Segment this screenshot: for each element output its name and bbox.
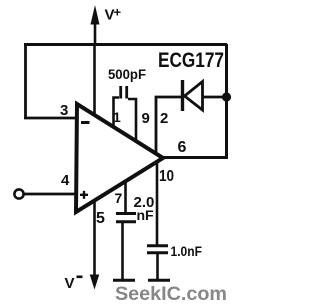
svg-text:SeekIC.com: SeekIC.com [115,284,227,305]
svg-text:1.0nF: 1.0nF [171,243,203,259]
svg-text:6: 6 [178,139,187,156]
svg-text:V: V [65,275,75,292]
wire: right rail vertical [225,44,228,158]
V- arrow head [90,275,100,290]
wire: pin 3 horizontal [24,117,78,120]
op-amp U1 triangle [76,104,163,212]
wire: top rail [24,43,227,46]
wire: pin 7 lead down [124,183,127,213]
diode D1 cathode bar [181,80,184,111]
svg-text:2: 2 [160,110,168,127]
capacitor C1 right lead to pin 9 [128,99,136,140]
svg-text:1: 1 [113,109,121,125]
capacitor C1 left plate [119,86,122,99]
svg-text:ECG177: ECG177 [158,49,224,72]
wire: left vertical of feedback box [24,44,27,119]
input terminal circle [14,189,23,198]
wire: pin 10 lead down [156,162,159,245]
svg-text:+: + [114,5,122,20]
svg-text:9: 9 [142,110,150,127]
C3 ground bar [148,279,170,282]
svg-text:5: 5 [96,210,105,227]
C2 ground bar [113,279,135,282]
capacitor C2 2.0nF top plate [116,212,136,215]
wire: V+ lead into op-amp top edge [93,44,96,116]
wire: pin 5 lead down [93,201,96,277]
wire: C2 bottom lead [121,222,124,279]
op-amp inverting input minus [81,121,90,124]
wire: C3 bottom lead [156,254,159,279]
capacitor C3 1.0nF top plate [147,244,168,247]
capacitor C1 500pF leads [114,98,120,127]
svg-text:3: 3 [60,102,68,119]
svg-text:4: 4 [61,172,70,189]
svg-text:nF: nF [137,207,155,223]
svg-text:7: 7 [115,190,123,206]
wire: output pin 6 horizontal [162,156,228,159]
capacitor C2 2.0nF bottom plate [116,220,136,223]
svg-text:10: 10 [159,168,174,185]
wire: diode anode to right rail [203,96,229,99]
svg-text:500pF: 500pF [108,66,146,82]
junction dot [222,92,231,101]
capacitor C1 right plate [125,86,128,99]
wire: pin 4 horizontal [24,193,78,196]
diode D1 triangle [185,82,203,111]
wire: pin 2 to diode cathode [156,97,181,155]
V+ arrow [91,5,100,45]
capacitor C3 1.0nF bottom plate [147,251,168,254]
op-amp non-inverting input plus [80,191,88,199]
